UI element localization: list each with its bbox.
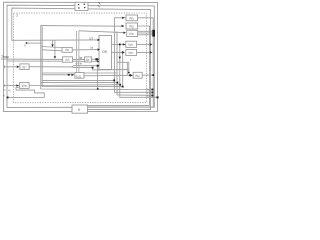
svg-text:Iв: Iв	[80, 56, 83, 60]
svg-text:Tнар: Tнар	[1, 55, 9, 59]
svg-text:uт: uт	[90, 36, 94, 40]
svg-text:у₁: у₁	[3, 93, 6, 97]
svg-text:2: 2	[16, 13, 18, 17]
svg-text:Wв: Wв	[129, 32, 134, 36]
svg-text:БД: БД	[76, 74, 81, 78]
svg-text:Wв: Wв	[22, 84, 27, 88]
svg-text:Об: Об	[102, 50, 107, 54]
svg-text:Ав: Ав	[65, 48, 69, 52]
svg-text:н₁: н₁	[8, 88, 11, 92]
svg-text:Wп: Wп	[128, 43, 133, 47]
svg-text:Wр: Wр	[129, 24, 134, 28]
svg-text:uб Iб: uб Iб	[76, 62, 83, 66]
svg-text:Аб: Аб	[65, 58, 69, 62]
svg-text:Wт: Wт	[22, 65, 27, 69]
svg-text:Wу: Wу	[129, 16, 134, 20]
svg-text:Дв: Дв	[86, 58, 90, 62]
svg-text:Wи: Wи	[128, 51, 133, 55]
svg-text:Wк: Wк	[135, 74, 140, 78]
